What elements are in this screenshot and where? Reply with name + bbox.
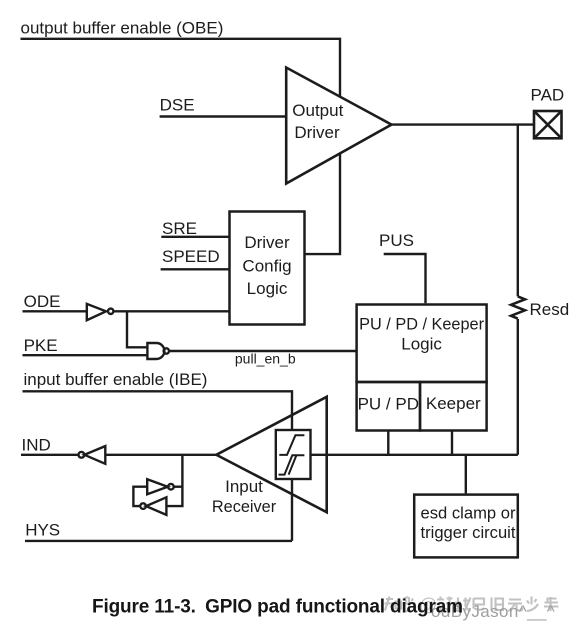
svg-text:SPEED: SPEED xyxy=(162,247,220,266)
wire pad net bottom xyxy=(311,454,518,456)
svg-text:Config: Config xyxy=(242,257,291,276)
box Driver Config Logic xyxy=(230,212,305,325)
svg-text:trigger circuit: trigger circuit xyxy=(421,523,516,542)
wire PU/PD down xyxy=(387,431,389,455)
char jiu xyxy=(492,598,504,612)
op-amp U1 Output Driver xyxy=(286,68,391,184)
wire PAD to Resd xyxy=(517,125,519,455)
box Keeper xyxy=(420,382,487,431)
wire DSE xyxy=(160,115,287,117)
wire PKE xyxy=(23,354,148,356)
svg-text:input buffer enable (IBE): input buffer enable (IBE) xyxy=(24,370,208,389)
svg-text:PAD: PAD xyxy=(531,86,565,105)
svg-text:SRE: SRE xyxy=(162,219,197,238)
wire PUS xyxy=(384,254,426,303)
wire esd xyxy=(465,455,467,494)
char nian xyxy=(544,597,559,611)
svg-text:PUS: PUS xyxy=(379,231,414,250)
svg-text:esd clamp or: esd clamp or xyxy=(421,503,516,522)
svg-text:DSE: DSE xyxy=(160,95,195,114)
NAND gate xyxy=(147,343,164,359)
svg-text:ODE: ODE xyxy=(24,292,61,311)
wire SPEED xyxy=(161,268,230,270)
svg-text:PKE: PKE xyxy=(24,336,58,355)
svg-text:Input: Input xyxy=(225,477,263,496)
svg-text:output buffer enable (OBE): output buffer enable (OBE) xyxy=(21,19,224,38)
wire IND xyxy=(21,454,79,456)
svg-text:PU / PD / Keeper: PU / PD / Keeper xyxy=(359,316,484,334)
char shao xyxy=(527,597,538,612)
triangle Input Receiver xyxy=(216,397,326,512)
box PU/PD/Keeper Logic xyxy=(357,305,487,383)
wire Keeper down xyxy=(451,431,453,455)
PAD box xyxy=(534,111,562,138)
svg-text:Receiver: Receiver xyxy=(212,498,277,516)
wire SRE xyxy=(161,236,230,238)
wire IBE xyxy=(23,391,293,541)
wire latch right xyxy=(166,455,182,506)
box hysteresis xyxy=(276,430,311,479)
wire pull_en_b xyxy=(169,350,357,352)
wire latch left xyxy=(133,487,147,506)
svg-text:Keeper: Keeper xyxy=(426,394,481,413)
inverter latch top xyxy=(147,479,168,494)
box PU/PD xyxy=(357,382,420,431)
svg-text:Output: Output xyxy=(292,101,343,120)
svg-text:IND: IND xyxy=(22,436,51,455)
wire ODE xyxy=(23,310,87,312)
char zhi xyxy=(385,597,402,611)
watermark zhihu (hand-drawn CJK approximation) xyxy=(385,597,559,612)
wire HYS xyxy=(25,540,292,542)
wire OBE xyxy=(21,39,341,97)
svg-text:Resd: Resd xyxy=(530,300,570,319)
wire pad net top xyxy=(392,123,535,125)
wire ODE to config box xyxy=(113,310,229,312)
inverter ODE buffer xyxy=(87,304,106,320)
svg-text:Logic: Logic xyxy=(401,334,442,353)
svg-text:PU / PD: PU / PD xyxy=(358,395,419,414)
char xin xyxy=(437,597,453,612)
svg-text:HYS: HYS xyxy=(25,521,60,540)
wire ODE to NAND xyxy=(127,311,147,347)
inverter latch bottom xyxy=(140,503,146,509)
wire config to driver xyxy=(305,153,341,254)
resistor Resd xyxy=(511,296,525,318)
char wu xyxy=(508,600,523,612)
char cheng xyxy=(455,598,471,612)
wire latch top output xyxy=(174,486,183,488)
char yi xyxy=(474,599,485,610)
svg-text:Driver: Driver xyxy=(294,123,340,142)
char hu xyxy=(403,597,416,612)
svg-text:Logic: Logic xyxy=(247,279,288,298)
svg-text:Driver: Driver xyxy=(244,233,290,252)
box esd clamp xyxy=(414,495,518,558)
wire IND to receiver xyxy=(105,454,216,456)
inverter IND output xyxy=(79,452,85,458)
svg-text:Figure 11-3. GPIO pad function: Figure 11-3. GPIO pad functional diagram xyxy=(92,597,463,618)
svg-text:pull_en_b: pull_en_b xyxy=(235,351,296,367)
